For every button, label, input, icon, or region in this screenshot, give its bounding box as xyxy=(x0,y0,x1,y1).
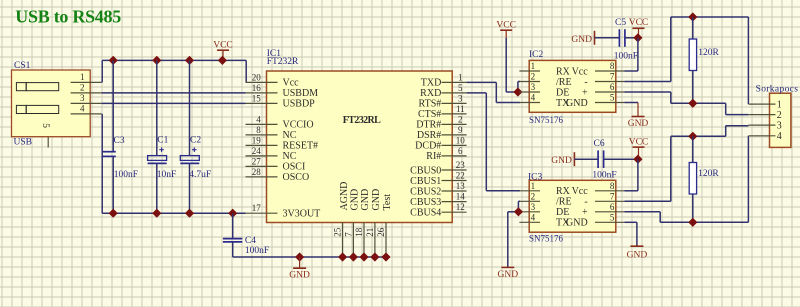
IC3 pin 1 RX xyxy=(519,181,570,197)
svg-text:USB: USB xyxy=(14,138,32,148)
resistor R2 120R xyxy=(689,136,719,222)
svg-text:USBDM: USBDM xyxy=(283,88,319,99)
svg-text:-: - xyxy=(584,197,587,208)
svg-text:2: 2 xyxy=(777,110,782,121)
junction IC3 enable xyxy=(514,207,523,216)
wire TXD to IC2 pin4 xyxy=(467,82,520,102)
IC1 pin 14 CBUS3 xyxy=(410,192,466,208)
wire C3 bottom xyxy=(112,157,114,213)
IC1 pin 3 RTS# xyxy=(419,93,467,109)
svg-text:GND: GND xyxy=(566,218,588,229)
svg-text:C2: C2 xyxy=(190,136,201,146)
svg-text:10nF: 10nF xyxy=(157,170,177,180)
svg-text:8: 8 xyxy=(256,125,261,135)
IC3 type SN75176 xyxy=(529,234,564,244)
svg-text:4: 4 xyxy=(777,131,782,142)
svg-text:CS1: CS1 xyxy=(14,61,31,71)
svg-text:NC: NC xyxy=(283,151,297,162)
IC2 designator xyxy=(529,50,544,60)
IC1 pin 8 NC xyxy=(246,125,297,141)
svg-text:24: 24 xyxy=(252,146,262,156)
wire C1 bottom xyxy=(156,164,158,213)
svg-text:USB to RS485: USB to RS485 xyxy=(15,7,121,27)
IC1 pin 26 Test bottom xyxy=(376,194,393,257)
wire C2 top xyxy=(189,60,191,155)
wire C4 bottom to gnd rail xyxy=(233,242,387,257)
svg-text:22: 22 xyxy=(456,171,465,181)
connector Sorkapocs body xyxy=(770,93,791,147)
IC1 pin 17 3V3OUT xyxy=(246,203,321,219)
svg-text:19: 19 xyxy=(252,135,262,145)
svg-text:9: 9 xyxy=(458,125,463,135)
svg-text:/RE: /RE xyxy=(556,197,572,208)
IC1 pin 10 DCD# xyxy=(415,135,466,151)
IC3 pin 3 DE xyxy=(519,202,569,218)
IC1 pin 24 NC xyxy=(246,146,297,162)
svg-text:AGND: AGND xyxy=(339,182,350,211)
junction gnd pin 18 xyxy=(359,252,368,261)
svg-text:6: 6 xyxy=(610,202,615,212)
svg-text:USBDP: USBDP xyxy=(283,99,316,110)
svg-text:4: 4 xyxy=(531,93,536,103)
wire VCC to IC2 enable dot xyxy=(506,38,518,92)
IC1 pin 25 AGND bottom xyxy=(333,182,350,257)
junction gnd pin 25 xyxy=(338,252,347,261)
Sorkapocs pin 3 xyxy=(748,120,781,131)
svg-text:Test: Test xyxy=(382,194,393,211)
svg-text:VCC: VCC xyxy=(213,41,233,51)
wire IC2 pin5 to ground xyxy=(624,102,638,104)
svg-text:RX: RX xyxy=(556,186,571,197)
C3 value 100nF xyxy=(114,170,138,180)
CS1 pin 4 xyxy=(71,104,102,114)
resistor R1 120R xyxy=(689,17,719,103)
svg-text:CBUS2: CBUS2 xyxy=(410,186,441,197)
IC2 pin 1 RX xyxy=(519,61,570,77)
IC2 pin 2 /RE xyxy=(519,72,571,88)
CS1 USB label xyxy=(14,138,32,148)
svg-text:Sorkapocs: Sorkapocs xyxy=(756,85,799,95)
svg-text:C3: C3 xyxy=(114,136,125,146)
IC1 pin 27 OSCI xyxy=(246,156,306,172)
CS1 pin 3 xyxy=(71,93,102,103)
junction resistor R2 bottom xyxy=(688,218,697,227)
svg-text:3: 3 xyxy=(777,120,782,131)
svg-text:15: 15 xyxy=(252,93,262,103)
IC2 type SN75176 xyxy=(529,115,564,125)
wire VCC down to IC3 pin8 xyxy=(624,159,638,191)
svg-text:100nF: 100nF xyxy=(245,246,269,256)
junction bottom C4 xyxy=(228,209,237,218)
IC3 pin 5 GND xyxy=(566,213,624,229)
wire IC3 pin7 B to connector pin3 xyxy=(624,126,748,202)
wire USBDP xyxy=(102,102,246,104)
IC1 pin 4 VCCIO xyxy=(246,114,314,130)
IC1 pin 13 CBUS2 xyxy=(410,181,466,197)
svg-text:FT232R: FT232R xyxy=(267,57,299,67)
C1 value 10nF xyxy=(157,170,177,180)
wire C3 top xyxy=(112,60,114,151)
svg-text:4: 4 xyxy=(531,213,536,223)
wire C6 to VCC junction xyxy=(604,158,638,160)
svg-text:GND: GND xyxy=(571,35,592,45)
svg-text:10: 10 xyxy=(456,135,466,145)
svg-text:-: - xyxy=(584,77,587,88)
svg-text:CBUS4: CBUS4 xyxy=(410,208,441,219)
wire enable dot up to IC2 pin2 xyxy=(518,82,520,93)
svg-text:Vcc: Vcc xyxy=(283,78,300,89)
svg-text:DSR#: DSR# xyxy=(417,130,441,141)
CS1 slot shape bottom xyxy=(16,105,58,113)
IC2 pin 4 TX xyxy=(519,93,570,109)
svg-text:5: 5 xyxy=(610,213,615,223)
svg-text:OSCO: OSCO xyxy=(283,172,310,183)
svg-text:GND: GND xyxy=(566,98,588,109)
svg-text:1: 1 xyxy=(531,61,536,71)
CS1 pin 1 xyxy=(71,72,102,82)
wire gnd to C5 xyxy=(595,37,620,39)
CS1 pin 2 xyxy=(71,83,102,93)
IC2 pin 6 + xyxy=(582,82,624,98)
svg-text:1: 1 xyxy=(80,72,85,82)
svg-text:1: 1 xyxy=(531,181,536,191)
wire gnd to C6 xyxy=(574,158,597,160)
svg-text:7: 7 xyxy=(610,72,615,82)
svg-text:3: 3 xyxy=(458,93,463,103)
IC1 pin 21 GND bottom xyxy=(365,189,382,257)
svg-text:C6: C6 xyxy=(594,139,605,149)
svg-text:CBUS3: CBUS3 xyxy=(410,197,441,208)
wire rail to IC1 pin20 xyxy=(245,60,247,82)
svg-text:25: 25 xyxy=(333,227,343,237)
IC1 pin 16 USBDM xyxy=(246,83,319,99)
junction bottom C1 xyxy=(152,209,161,218)
IC1 pin 20 Vcc xyxy=(246,72,300,88)
ground symbol below IC2 xyxy=(628,103,649,129)
C5 value 100nF xyxy=(614,52,638,62)
svg-text:SN75176: SN75176 xyxy=(529,234,564,244)
IC3 pin 4 TX xyxy=(519,213,570,229)
IC1 pin 19 RESET# xyxy=(246,135,319,151)
svg-text:6: 6 xyxy=(458,146,463,156)
svg-text:5: 5 xyxy=(458,83,463,93)
svg-text:GND: GND xyxy=(627,250,648,260)
junction bottom C3 xyxy=(109,209,118,218)
svg-text:11: 11 xyxy=(456,104,465,114)
svg-text:4: 4 xyxy=(256,114,261,124)
svg-text:2: 2 xyxy=(531,72,536,82)
svg-text:1: 1 xyxy=(458,72,463,82)
svg-text:3V3OUT: 3V3OUT xyxy=(283,209,321,220)
svg-text:3: 3 xyxy=(531,82,536,92)
svg-text:RX: RX xyxy=(556,66,571,77)
svg-text:17: 17 xyxy=(252,203,262,213)
IC1 pin 7 GND bottom xyxy=(343,189,360,257)
junction gnd tap xyxy=(295,252,304,261)
svg-text:RESET#: RESET# xyxy=(283,141,319,152)
svg-text:6: 6 xyxy=(610,82,615,92)
svg-text:GND: GND xyxy=(360,189,371,211)
svg-text:GND: GND xyxy=(628,119,649,129)
svg-text:7: 7 xyxy=(343,232,353,237)
wire CS1 pin4 down xyxy=(101,114,103,213)
svg-text:GND: GND xyxy=(371,189,382,211)
capacitor C5 xyxy=(615,18,626,47)
wire IC2 pin6 A to connector pin2 xyxy=(624,92,748,115)
svg-text:4.7uF: 4.7uF xyxy=(189,170,211,180)
IC3 pin 7 - xyxy=(584,192,624,208)
svg-text:100nF: 100nF xyxy=(592,170,616,180)
svg-text:SN75176: SN75176 xyxy=(529,115,564,125)
ground symbol C5 xyxy=(571,31,594,45)
CS1 slot shape top xyxy=(16,83,58,91)
wire bottom rail to 3V3OUT xyxy=(102,212,245,214)
IC2 pin 8 Vcc xyxy=(572,61,625,77)
svg-text:VCC: VCC xyxy=(629,18,649,28)
C4 value 100nF xyxy=(245,246,269,256)
capacitor C4 xyxy=(223,236,256,246)
svg-text:RXD: RXD xyxy=(420,88,441,99)
junction gnd pin 26 xyxy=(381,252,390,261)
capacitor C3 xyxy=(102,136,125,156)
junction C5 VCC xyxy=(633,33,642,42)
power VCC top-left xyxy=(213,41,233,61)
IC3 pin 6 + xyxy=(582,202,624,218)
svg-text:GND: GND xyxy=(551,156,572,166)
svg-text:1: 1 xyxy=(777,99,782,110)
wire C4 top xyxy=(232,213,234,238)
Sorkapocs pin 4 xyxy=(748,131,781,142)
wire CS1 pin1 to VCC rail xyxy=(101,60,103,82)
svg-text:VCCIO: VCCIO xyxy=(283,120,314,131)
svg-text:/RE: /RE xyxy=(556,77,572,88)
svg-text:23: 23 xyxy=(456,160,466,170)
svg-text:RI#: RI# xyxy=(426,151,441,162)
svg-text:Vcc: Vcc xyxy=(572,66,589,77)
IC2 pin 7 - xyxy=(584,72,624,88)
IC2 pin 5 GND xyxy=(566,93,624,109)
svg-text:OSCI: OSCI xyxy=(283,162,306,173)
svg-text:21: 21 xyxy=(365,228,375,237)
svg-text:NC: NC xyxy=(283,130,297,141)
svg-text:18: 18 xyxy=(354,227,364,237)
svg-text:100nF: 100nF xyxy=(614,52,638,62)
IC1 pin 9 DSR# xyxy=(417,125,467,141)
svg-text:120R: 120R xyxy=(698,48,719,58)
junction gnd pin 7 xyxy=(349,252,358,261)
IC1 pin 2 DTR# xyxy=(416,114,466,130)
svg-text:+: + xyxy=(582,87,588,98)
power VCC above IC3 pin8 xyxy=(629,137,649,159)
IC3 designator xyxy=(528,172,543,182)
capacitor C1 polarized xyxy=(148,136,169,164)
CS1 designator xyxy=(14,61,31,71)
ground symbol below IC3 left xyxy=(498,267,519,280)
IC1 pin 22 CBUS1 xyxy=(410,171,466,187)
junction resistor R2 top xyxy=(688,132,697,141)
wire enable dot to IC2 pin3 xyxy=(518,91,520,93)
IC1 pin 6 RI# xyxy=(426,146,466,162)
svg-text:28: 28 xyxy=(252,167,262,177)
svg-text:8: 8 xyxy=(610,61,615,71)
IC2 pin 3 DE xyxy=(519,82,569,98)
title USB to RS485 xyxy=(15,7,121,27)
svg-text:DTR#: DTR# xyxy=(416,120,441,131)
IC1 pin 28 OSCO xyxy=(246,167,310,183)
svg-text:2: 2 xyxy=(531,192,536,202)
C2 value 4.7uF xyxy=(189,170,211,180)
svg-text:VCC: VCC xyxy=(496,21,516,31)
wire IC3 pin5 to ground xyxy=(624,222,637,246)
wire USBDM xyxy=(102,92,246,94)
wire C2 bottom xyxy=(189,164,191,213)
IC1 pin 15 USBDP xyxy=(246,93,316,109)
svg-text:GND: GND xyxy=(350,189,361,211)
IC1 pin 1 TXD xyxy=(421,72,467,88)
svg-text:C5: C5 xyxy=(615,18,626,28)
wire enable dot to IC3 pin3 xyxy=(518,211,520,213)
wire VCC down to IC2 pin8 xyxy=(624,38,638,71)
wire RXD to IC3 pin1 xyxy=(467,93,520,191)
svg-text:14: 14 xyxy=(456,192,466,202)
svg-text:VCC: VCC xyxy=(629,137,649,147)
IC1 pin 18 GND bottom xyxy=(354,189,371,257)
svg-text:DE: DE xyxy=(556,207,569,218)
svg-text:GND: GND xyxy=(289,271,310,281)
svg-text:TXD: TXD xyxy=(421,78,442,89)
svg-text:5: 5 xyxy=(40,123,50,128)
junction rail C1 xyxy=(152,56,161,65)
svg-text:FT232RL: FT232RL xyxy=(343,115,381,126)
svg-text:100nF: 100nF xyxy=(114,170,138,180)
svg-text:2: 2 xyxy=(458,114,463,124)
IC1 pin 5 RXD xyxy=(420,83,466,99)
junction gnd pin 21 xyxy=(370,252,379,261)
svg-text:13: 13 xyxy=(456,181,466,191)
junction rail resistor R1 top xyxy=(688,12,697,21)
transistor-array IC2 SN75176 body xyxy=(529,60,616,112)
IC1 pin 11 CTS# xyxy=(418,104,467,120)
IC1 type label FT232RL xyxy=(343,115,381,126)
wire VCC top rail xyxy=(102,59,246,61)
svg-text:3: 3 xyxy=(80,93,85,103)
Sorkapocs designator xyxy=(756,85,799,95)
svg-text:27: 27 xyxy=(252,156,262,166)
svg-text:DCD#: DCD# xyxy=(415,141,441,152)
wire C5 to VCC junction xyxy=(625,37,638,39)
wire C1 top xyxy=(156,60,158,155)
svg-text:C4: C4 xyxy=(245,236,256,246)
svg-text:4: 4 xyxy=(80,104,85,114)
wire IC3 pin6 A to connector pin4 xyxy=(624,136,748,223)
transistor-array IC3 SN75176 body xyxy=(529,180,616,232)
wire IC3 enable dot to gnd xyxy=(508,212,519,267)
junction IC2 enable xyxy=(513,87,522,96)
svg-text:16: 16 xyxy=(252,83,262,93)
C6 value 100nF xyxy=(592,170,616,180)
svg-text:8: 8 xyxy=(610,181,615,191)
wire enable dot up to IC3 pin2 xyxy=(518,201,520,212)
IC1 pin 12 CBUS4 xyxy=(410,202,466,218)
Sorkapocs pin 1 xyxy=(748,99,781,110)
svg-text:GND: GND xyxy=(498,270,519,280)
svg-text:C1: C1 xyxy=(157,136,168,146)
power VCC above IC2 xyxy=(629,18,649,38)
IC1 pin 23 CBUS0 xyxy=(410,160,466,176)
svg-text:+: + xyxy=(582,207,588,218)
junction C6 VCC xyxy=(633,155,642,164)
power VCC IC2 enable xyxy=(496,21,516,40)
svg-text:120R: 120R xyxy=(698,169,719,179)
connector CS1 body xyxy=(12,70,91,137)
ground symbol below IC3 right xyxy=(627,246,648,260)
IC3 pin 2 /RE xyxy=(519,192,571,208)
svg-text:CBUS1: CBUS1 xyxy=(410,176,441,187)
capacitor C2 polarized xyxy=(180,136,201,164)
ground symbol bottom center xyxy=(289,257,310,281)
svg-text:CBUS0: CBUS0 xyxy=(410,165,441,176)
junction rail C2 xyxy=(185,56,194,65)
svg-text:Vcc: Vcc xyxy=(572,186,589,197)
op-amp U1 IC1 FT232RL body xyxy=(267,71,453,223)
IC3 pin 8 Vcc xyxy=(572,181,625,197)
svg-text:CTS#: CTS# xyxy=(418,109,441,120)
junction resistor R1 bottom xyxy=(688,99,697,108)
svg-text:5: 5 xyxy=(610,93,615,103)
svg-text:12: 12 xyxy=(456,202,465,212)
svg-text:26: 26 xyxy=(376,227,386,237)
junction rail VCC xyxy=(218,56,227,65)
svg-text:IC2: IC2 xyxy=(529,50,544,60)
svg-text:20: 20 xyxy=(252,72,262,82)
Sorkapocs pin 2 xyxy=(748,110,781,121)
ground symbol C6 xyxy=(551,152,574,166)
junction bottom C2 xyxy=(185,209,194,218)
IC1 comment FT232R xyxy=(267,57,299,67)
svg-text:7: 7 xyxy=(610,192,615,202)
wire IC2 pin7 B to top rail xyxy=(624,17,748,104)
capacitor C6 xyxy=(594,139,605,168)
svg-text:RTS#: RTS# xyxy=(419,99,442,110)
CS1 pin 5 shield xyxy=(40,123,50,147)
svg-text:3: 3 xyxy=(531,202,536,212)
junction rail C3 xyxy=(109,56,118,65)
svg-text:2: 2 xyxy=(80,83,85,93)
IC1 designator xyxy=(267,49,282,59)
svg-text:DE: DE xyxy=(556,87,569,98)
